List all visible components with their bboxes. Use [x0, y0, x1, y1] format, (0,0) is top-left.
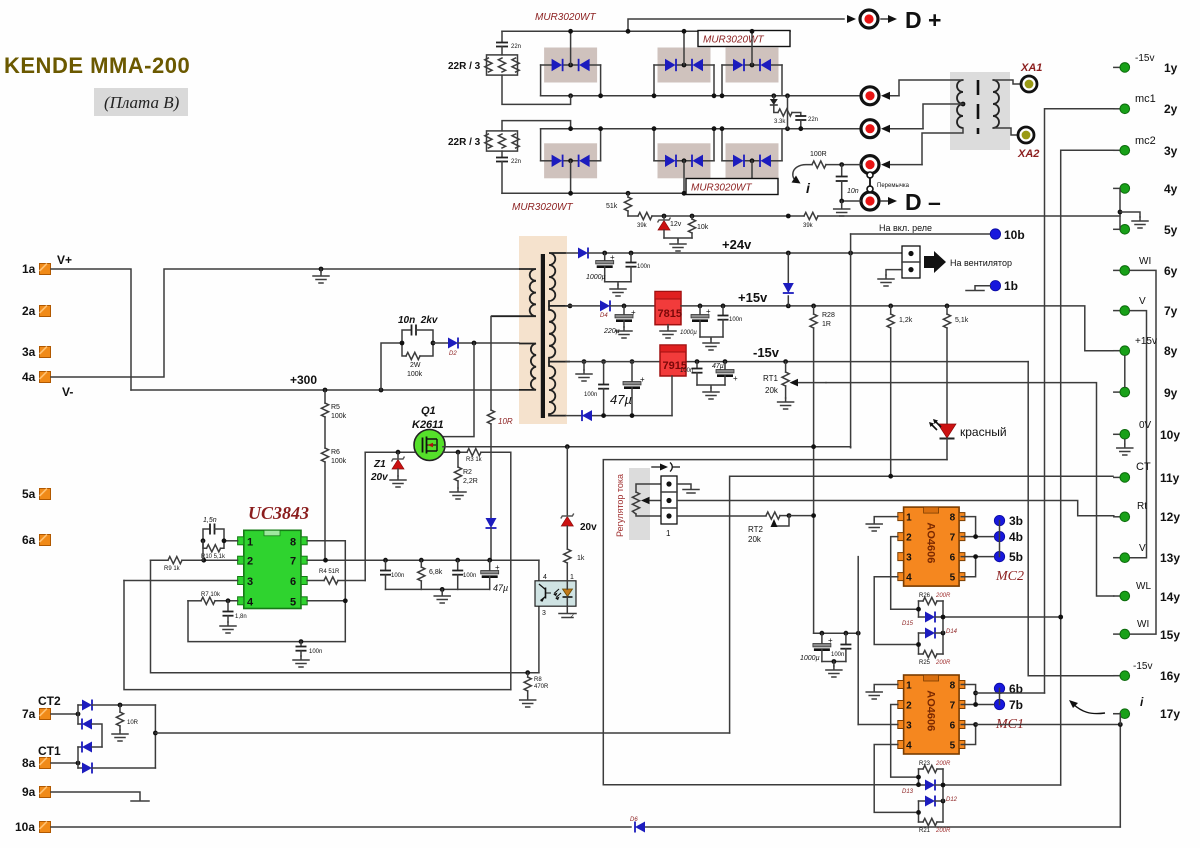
svg-text:R3 1k: R3 1k: [466, 457, 483, 463]
capacitor 1000µ +24v: [586, 253, 615, 282]
transformer XA right coil: [993, 80, 999, 128]
svg-text:XA1: XA1: [1020, 62, 1042, 74]
svg-text:47µ: 47µ: [493, 583, 508, 593]
relay connector box: [902, 246, 920, 278]
resistor 39k left: [637, 212, 652, 229]
svg-text:12y: 12y: [1160, 510, 1180, 524]
svg-text:1,8n: 1,8n: [235, 614, 247, 620]
pin 7y: [1114, 296, 1178, 318]
arrow На вентилятор: [924, 251, 1012, 273]
wire MC2 pin2 loop: [891, 537, 919, 610]
svg-text:7a: 7a: [22, 707, 36, 721]
svg-text:100n: 100n: [831, 652, 844, 658]
svg-text:D13: D13: [902, 789, 914, 795]
resistor 10k: [688, 214, 708, 238]
svg-text:R8: R8: [534, 677, 542, 683]
svg-text:R25: R25: [919, 660, 931, 666]
resistor R28 1R: [810, 306, 835, 633]
svg-text:10R: 10R: [498, 417, 513, 426]
pin 11y: [1114, 461, 1180, 485]
wire mc2 net: [1061, 150, 1114, 785]
wire control row y216: [628, 215, 1120, 217]
wire snubber left leg: [381, 343, 402, 390]
svg-text:4: 4: [247, 596, 254, 608]
svg-text:+: +: [706, 307, 711, 316]
regulator 7815: [655, 292, 682, 325]
ground relay: [878, 270, 902, 286]
potentiometer регулятор: [632, 484, 661, 516]
svg-text:На вкл. реле: На вкл. реле: [879, 223, 932, 233]
zener 20v opto: [561, 447, 597, 549]
wire XA left coil top to jack2: [899, 80, 963, 96]
svg-text:D –: D –: [905, 189, 941, 215]
wire -15v rail: [685, 361, 1028, 363]
svg-text:+: +: [640, 375, 645, 384]
svg-text:-15v: -15v: [1133, 661, 1152, 672]
jack XA1: [1020, 62, 1042, 92]
connector 5a: [22, 487, 51, 501]
wire -15v input segment: [566, 361, 660, 363]
svg-text:100n: 100n: [584, 392, 597, 398]
jack row4: [861, 156, 922, 174]
resistor 10R ct: [112, 703, 139, 741]
svg-text:-15v: -15v: [1135, 53, 1154, 64]
svg-text:(Плата В): (Плата В): [104, 93, 180, 112]
svg-text:100k: 100k: [407, 371, 423, 378]
capacitor 22n bank2: [496, 151, 521, 193]
diode pair MUR3020WT block3 row2: [722, 143, 782, 178]
svg-text:2y: 2y: [1164, 102, 1178, 116]
connector 3a: [22, 345, 51, 359]
jack D-: [842, 189, 941, 215]
transformer XA left coil: [957, 80, 963, 128]
svg-text:200R: 200R: [935, 828, 951, 834]
svg-text:R2: R2: [463, 469, 472, 476]
resistor R2 2,2R: [450, 452, 478, 499]
capacitor 47µ -15v right: [712, 362, 738, 385]
wire MC1 pin4 loop: [874, 745, 918, 813]
svg-text:100n: 100n: [463, 573, 476, 579]
svg-text:47µ: 47µ: [610, 392, 632, 407]
wire MC2 pin8 pin7: [961, 517, 994, 537]
svg-text:CT: CT: [1136, 461, 1151, 473]
svg-text:100k: 100k: [331, 413, 347, 420]
resistor R6 100k: [321, 417, 346, 560]
svg-text:3.3k: 3.3k: [774, 119, 786, 125]
svg-text:V: V: [1139, 543, 1146, 554]
wire current regulator frame: [603, 460, 947, 785]
wire na vkl rele: [851, 223, 1025, 242]
wire XA1 lead: [993, 80, 1021, 84]
svg-text:Z1: Z1: [373, 459, 386, 470]
svg-text:6y: 6y: [1164, 264, 1178, 278]
connector 8a: [22, 744, 61, 770]
diode D4: [566, 300, 655, 319]
ground reg caps: [822, 659, 846, 677]
node dots mid rail: [568, 93, 573, 98]
pin 10y: [1114, 420, 1181, 442]
svg-text:8y: 8y: [1164, 344, 1178, 358]
svg-text:+15v: +15v: [738, 290, 768, 305]
wire 8y-9y tie: [1124, 356, 1126, 387]
transformer XA core dashes: [977, 80, 980, 134]
svg-text:0V: 0V: [1139, 420, 1152, 431]
wire 9a stub: [51, 792, 149, 801]
svg-text:10n 2kv: 10n 2kv: [398, 315, 439, 326]
svg-text:16y: 16y: [1160, 669, 1180, 683]
svg-text:1: 1: [247, 536, 253, 548]
wire XA left coil bottom to jack4: [922, 128, 963, 165]
svg-text:7b: 7b: [1009, 698, 1023, 712]
svg-text:17y: 17y: [1160, 707, 1180, 721]
ground MC1 pin1: [866, 685, 898, 700]
svg-text:39k: 39k: [637, 223, 648, 229]
svg-text:100n: 100n: [309, 649, 322, 655]
svg-text:11y: 11y: [1160, 471, 1180, 485]
pin 6y: [1114, 256, 1178, 278]
resistor R8 470R: [520, 670, 549, 707]
transistor Q1 K2611: [412, 405, 445, 461]
svg-text:100k: 100k: [331, 458, 347, 465]
svg-text:100n: 100n: [729, 317, 742, 323]
svg-text:2a: 2a: [22, 304, 36, 318]
svg-text:WL: WL: [1136, 581, 1151, 592]
diode CT1 b: [78, 763, 155, 774]
svg-text:3y: 3y: [1164, 144, 1178, 158]
svg-text:-15v: -15v: [753, 345, 780, 360]
diode small on mid rail: [770, 93, 778, 112]
connector регулятор: [661, 476, 677, 538]
svg-text:WI: WI: [1139, 256, 1151, 267]
svg-text:3: 3: [542, 610, 546, 617]
svg-text:220µ: 220µ: [603, 328, 620, 335]
svg-text:22n: 22n: [511, 44, 521, 50]
wire pin3 row: [124, 580, 238, 582]
wire MC2 pin5 pin6: [961, 557, 994, 577]
connector 6a: [22, 533, 51, 547]
svg-text:20v: 20v: [580, 522, 597, 533]
wire pin4 left loop: [188, 601, 345, 642]
svg-text:5y: 5y: [1164, 223, 1178, 237]
pin 7b: [994, 698, 1023, 712]
svg-text:20k: 20k: [765, 386, 779, 395]
diode +24 to +15 link: [783, 253, 794, 306]
connector 4a: [22, 370, 73, 399]
wire -15v net to 16y: [1028, 362, 1114, 676]
connector 9a: [22, 785, 51, 799]
svg-text:9a: 9a: [22, 785, 36, 799]
svg-text:7: 7: [290, 556, 296, 568]
diode +24v rectifier: [566, 248, 588, 259]
resistor R26 200R + diode D15: [902, 593, 951, 627]
pin 9y: [1114, 386, 1178, 400]
pin 15y: [1114, 619, 1181, 642]
ground регулятор top pin: [677, 484, 699, 493]
svg-text:D15: D15: [902, 621, 914, 627]
svg-text:10R: 10R: [127, 720, 139, 726]
ground control row: [664, 238, 692, 251]
svg-text:1b: 1b: [1004, 279, 1018, 293]
pin 16y: [1114, 661, 1181, 683]
pin 12y: [1114, 501, 1181, 524]
transformer T1 secondary S2: [549, 306, 570, 362]
svg-text:+300: +300: [290, 373, 317, 387]
svg-text:1a: 1a: [22, 262, 36, 276]
svg-text:+15v: +15v: [1135, 336, 1157, 347]
svg-text:Перемычка: Перемычка: [877, 183, 910, 189]
svg-text:22R / 3: 22R / 3: [448, 137, 481, 148]
svg-text:4a: 4a: [22, 370, 36, 384]
ground vcc filter rail: [386, 587, 490, 603]
IC UC3843: [238, 503, 309, 609]
svg-text:15y: 15y: [1160, 628, 1180, 642]
wire fb rail R9: [151, 560, 539, 673]
transformer T1 secondary S1: [549, 253, 570, 306]
wire +15v rail: [681, 306, 1113, 351]
resistor R9 1k: [151, 541, 238, 572]
capacitor 100n vcc a: [380, 560, 404, 589]
ground +15v caps: [700, 337, 723, 350]
svg-text:Регулятор тока: Регулятор тока: [615, 474, 625, 537]
svg-text:9y: 9y: [1164, 386, 1178, 400]
wire opto collector drop: [538, 560, 540, 673]
arrow hook i: [792, 165, 813, 196]
connector 2a: [22, 304, 51, 318]
wire row2 center drops: [571, 161, 752, 194]
wire 6b-7b tie: [999, 688, 1001, 704]
optocoupler U2: [535, 574, 576, 620]
svg-text:200R: 200R: [935, 761, 951, 767]
svg-text:8: 8: [290, 536, 296, 548]
capacitor 220µ: [603, 306, 636, 338]
wire Rt net: [826, 383, 1114, 596]
svg-text:100n: 100n: [680, 368, 693, 374]
svg-text:1000µ: 1000µ: [586, 274, 606, 281]
svg-text:D12: D12: [946, 797, 958, 803]
svg-text:V+: V+: [57, 253, 72, 267]
jumper Перемычка: [867, 172, 910, 192]
subtitle (Плата В): [94, 88, 188, 116]
svg-text:1: 1: [570, 574, 574, 581]
transformer XA background: [950, 72, 1010, 150]
diode pair MUR3020WT block3 row1: [722, 48, 782, 83]
diode D6: [630, 817, 645, 833]
svg-text:WI: WI: [1137, 619, 1149, 630]
svg-text:10k: 10k: [697, 224, 709, 231]
svg-text:3b: 3b: [1009, 514, 1023, 528]
svg-text:Rt: Rt: [1137, 501, 1147, 512]
ground MC2 pin1: [866, 517, 898, 531]
wire WI loop 6y-15y: [1130, 270, 1157, 634]
capacitor 100n vcc b: [452, 560, 476, 589]
ground -15v caps: [697, 385, 725, 399]
pin 2y: [1114, 93, 1178, 116]
svg-text:100R: 100R: [810, 151, 827, 158]
svg-text:D14: D14: [946, 629, 958, 635]
capacitor 47µ -15v left: [610, 362, 645, 416]
connector 1a: [22, 253, 72, 276]
svg-text:MUR3020WT: MUR3020WT: [703, 35, 764, 46]
svg-text:mc1: mc1: [1135, 93, 1156, 105]
capacitor 100n -15v left: [584, 362, 609, 416]
wire CT net row: [730, 476, 1113, 733]
label MUR3020WT boxed bottom: [686, 179, 778, 195]
wire tie between output rails: [787, 96, 789, 129]
wire 7a input: [51, 713, 78, 715]
wire mc1 net tap: [976, 692, 1045, 694]
svg-text:+: +: [610, 253, 615, 262]
svg-text:1y: 1y: [1164, 61, 1178, 75]
svg-text:MUR3020WT: MUR3020WT: [535, 12, 596, 23]
wire Q1 sense row to relay column: [443, 446, 851, 449]
wire ct output column: [154, 705, 156, 768]
wire mid output rail: [541, 95, 861, 97]
pin 8y: [1114, 336, 1178, 358]
svg-text:10b: 10b: [1004, 228, 1025, 242]
resistor R5 100k: [321, 390, 346, 420]
wire MC1 pin2 loop: [891, 705, 919, 778]
resistor 39k right: [786, 212, 818, 229]
diode pair MUR3020WT block1 row2: [541, 143, 601, 178]
svg-text:D +: D +: [905, 7, 941, 33]
arrow connector symbol: [652, 463, 680, 472]
svg-text:2: 2: [247, 556, 253, 568]
svg-text:100n: 100n: [391, 573, 404, 579]
wire mc1 net: [1045, 109, 1114, 693]
zener Z1 20v: [370, 452, 406, 487]
diode CT2 b: [78, 719, 102, 748]
svg-text:7y: 7y: [1164, 304, 1178, 318]
ground -15v tap: [576, 362, 592, 381]
svg-text:20k: 20k: [748, 535, 762, 544]
svg-text:10a: 10a: [15, 820, 35, 834]
resistor R7 10k: [188, 592, 238, 604]
wire MC1 pin5 pin6 i-net: [961, 725, 975, 745]
capacitor 22n bank1: [496, 31, 521, 55]
wire bottom rectifier rail: [502, 192, 752, 194]
diode supply UC: [486, 518, 497, 560]
resistor 3.3k: [774, 109, 801, 125]
wire 17y link: [1114, 714, 1121, 725]
wire 8a input: [51, 762, 78, 764]
svg-text:MUR3020WT: MUR3020WT: [512, 202, 573, 213]
resistor 5.1k: [943, 306, 968, 424]
wire RT2 to R28 column: [789, 515, 814, 517]
svg-text:1,2k: 1,2k: [899, 317, 913, 324]
capacitor 1.8n: [220, 601, 247, 633]
wire MC2 diode node to mc2 riser: [943, 617, 1061, 633]
svg-text:22R / 3: 22R / 3: [448, 61, 481, 72]
svg-text:KENDE MMA-200: KENDE MMA-200: [4, 53, 190, 78]
svg-text:5,1k: 5,1k: [955, 317, 969, 324]
wire MC2 pin4 loop: [874, 577, 918, 645]
svg-text:Q1: Q1: [421, 405, 436, 417]
pin 5b: [994, 550, 1023, 564]
svg-text:R28: R28: [822, 312, 835, 319]
jack row2: [861, 87, 899, 105]
svg-text:22n: 22n: [808, 117, 818, 123]
LED красный: [929, 419, 1007, 460]
capacitor 100n +15v: [718, 306, 743, 337]
connector 10a: [15, 820, 51, 834]
svg-text:4: 4: [543, 574, 547, 581]
svg-text:6,8k: 6,8k: [429, 569, 443, 576]
svg-text:6: 6: [290, 576, 296, 588]
wire pin3 sense loop: [124, 581, 511, 690]
svg-text:+: +: [733, 374, 738, 383]
wire i net to 17y: [976, 714, 1121, 827]
svg-text:+: +: [495, 563, 500, 572]
svg-text:4y: 4y: [1164, 182, 1178, 196]
svg-text:2W: 2W: [410, 362, 421, 369]
pin 14y: [1114, 581, 1181, 604]
diode CT1 a: [78, 742, 102, 769]
ground 7815: [660, 325, 676, 338]
wire ct output row: [155, 732, 729, 734]
wire bottom pin to RT2: [677, 515, 766, 517]
wire row2 upper rail to jack3: [541, 128, 861, 130]
svg-text:mc2: mc2: [1135, 135, 1156, 147]
diode -15v rectifier: [582, 410, 592, 421]
wire 7915 bottom pin: [671, 376, 673, 416]
svg-text:MUR3020WT: MUR3020WT: [691, 183, 752, 194]
svg-text:100n: 100n: [637, 264, 650, 270]
svg-text:На вентилятор: На вентилятор: [950, 258, 1012, 268]
svg-text:47µ: 47µ: [712, 363, 724, 370]
svg-text:5a: 5a: [22, 487, 36, 501]
svg-text:красный: красный: [960, 425, 1007, 439]
svg-text:1R: 1R: [822, 321, 831, 328]
zener 12v: [658, 214, 682, 238]
resistor R4 51R: [307, 452, 365, 584]
svg-text:3a: 3a: [22, 345, 36, 359]
wire V+ to +300 rail: [51, 269, 131, 390]
svg-text:22n: 22n: [511, 159, 521, 165]
wire row2 side risers to upper rail: [541, 129, 782, 161]
capacitor 22n snubber: [795, 116, 818, 131]
svg-text:RT1: RT1: [763, 374, 779, 383]
svg-text:CT2: CT2: [38, 694, 61, 708]
wire MC1 pin3 link: [858, 724, 898, 726]
capacitor 47µ vcc: [481, 560, 509, 593]
label MUR3020WT boxed top: [698, 31, 790, 47]
regulator 7915: [660, 345, 687, 376]
wire D+ feed: [628, 19, 844, 31]
transformer T1 primary winding upper: [491, 269, 536, 316]
svg-text:1000µ: 1000µ: [800, 655, 820, 662]
capacitor 1.5n + resistor R10 5.1k feedback: [201, 517, 238, 560]
resistor R3 1k: [466, 449, 511, 690]
IC MC1 AC4606: [898, 675, 965, 754]
svg-text:10n: 10n: [847, 188, 859, 195]
capacitor 1000µ +15v: [680, 306, 711, 337]
node dots top rail: [568, 29, 573, 34]
svg-text:14y: 14y: [1160, 590, 1180, 604]
svg-text:5: 5: [290, 596, 296, 608]
resistor 51k: [606, 193, 632, 216]
wire Q1 source row: [443, 451, 467, 453]
svg-text:+: +: [631, 308, 636, 317]
transformer T1 background: [519, 236, 567, 424]
svg-text:R7 10k: R7 10k: [201, 592, 221, 598]
svg-text:CT1: CT1: [38, 744, 61, 758]
svg-text:R21: R21: [919, 828, 931, 834]
svg-text:10y: 10y: [1160, 428, 1180, 442]
wire block3 center riser: [751, 31, 753, 65]
wire MC1 diode node riser: [943, 785, 1061, 801]
pin 1y: [1114, 53, 1178, 75]
resistor 100R: [810, 151, 861, 168]
